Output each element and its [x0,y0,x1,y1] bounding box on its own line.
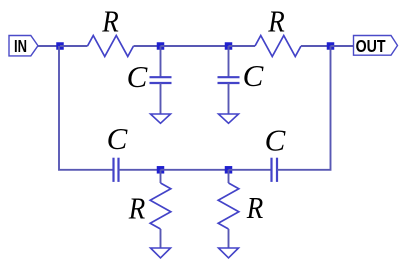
wire node F down to R4 [228,170,230,183]
node C junction [225,42,233,50]
svg-text:IN: IN [14,36,27,56]
wire C4 right and up to node D [277,46,331,170]
port OUT [354,36,398,56]
node F junction [225,166,233,174]
wire node B to node C [161,45,229,47]
resistor R1 [88,36,134,57]
wire C1 to ground [160,83,162,114]
wire R1 to node B [134,45,161,47]
wire node C down to C2 [228,46,230,77]
svg-text:R: R [128,191,145,226]
wire C2 to ground [228,83,230,114]
wire R3 to ground [160,229,162,248]
ground under R3 [151,248,171,258]
wire R4 to ground [228,229,230,248]
svg-text:R: R [101,4,118,39]
capacitor C4 [272,158,278,182]
svg-text:OUT: OUT [356,36,386,56]
node B junction [157,42,165,50]
wire node E to node F [161,169,229,171]
ground under C2 [219,114,239,123]
wire IN tip to node A [38,45,60,47]
node A junction [56,42,64,50]
wire node A to R1 [60,45,88,47]
capacitor C1 [150,77,172,83]
svg-text:R: R [267,4,284,39]
capacitor C3 [114,158,119,182]
capacitor C2 [218,77,240,83]
wire R2 to node D [301,45,331,47]
svg-text:C: C [243,58,264,93]
svg-text:C: C [265,123,286,158]
svg-text:C: C [107,121,128,156]
wire node B down to C1 [160,46,162,77]
ground under C1 [151,114,171,123]
svg-text:C: C [127,59,148,94]
port IN [9,36,38,56]
resistor R4 [218,183,239,229]
wire node D to OUT [331,45,354,47]
wire left vertical from node A down and right to C3 [59,46,114,170]
resistor R3 [150,183,171,229]
node D junction [327,42,335,50]
wire node C to R2 [229,45,256,47]
ground under R4 [219,248,239,258]
svg-text:R: R [246,190,263,225]
resistor R2 [255,36,301,57]
wire C3 to node E [119,169,161,171]
node E junction [157,166,165,174]
wire node E down to R3 [160,170,162,183]
wire node F to C4 [229,169,272,171]
